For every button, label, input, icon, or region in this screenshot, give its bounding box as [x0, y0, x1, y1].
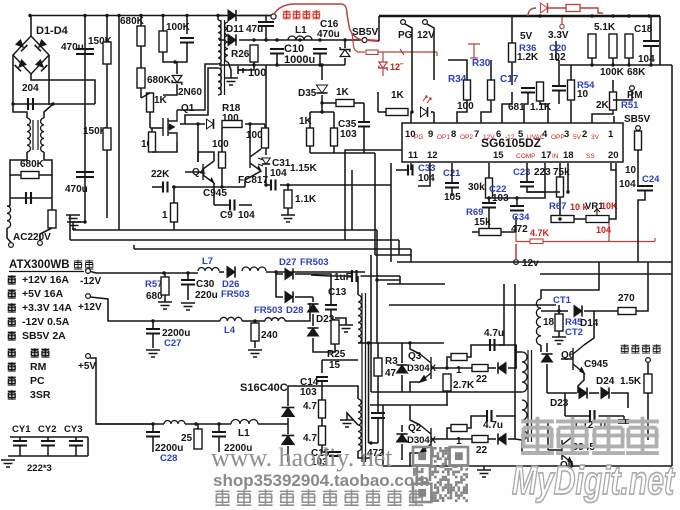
wire t3 lower bot	[522, 440, 548, 452]
wire 472 join	[369, 442, 379, 444]
wire q3 row link	[370, 255, 372, 392]
wire 47u col2	[265, 26, 267, 40]
svg-text:Q1: Q1	[181, 103, 195, 114]
wire winding bot	[410, 391, 522, 393]
core common-mode choke	[33, 120, 38, 150]
svg-text:FR503: FR503	[254, 305, 283, 316]
wire pin10 col	[410, 112, 412, 123]
svg-text:ATX300WB: ATX300WB	[9, 259, 70, 271]
wire 1.5k top	[647, 362, 649, 374]
resistor R30	[488, 80, 495, 100]
wire r26 bot	[253, 62, 255, 65]
wire c31 right	[280, 184, 288, 186]
svg-text:SS: SS	[586, 153, 595, 160]
svg-text:C27: C27	[164, 338, 181, 349]
label row black ground	[8, 348, 16, 357]
svg-text:3.3V: 3.3V	[548, 30, 569, 41]
svg-text:1.5K: 1.5K	[620, 376, 642, 387]
wire R18 right	[245, 123, 265, 125]
resistor 1 Q2	[451, 425, 467, 432]
resistor 100K snub	[159, 31, 167, 52]
resistor 1K led	[386, 109, 408, 116]
wire 75k up	[559, 163, 561, 177]
svg-text:68K: 68K	[627, 67, 646, 78]
capacitor C15	[329, 452, 341, 456]
svg-text:-12V: -12V	[80, 276, 101, 287]
svg-text:R26: R26	[231, 49, 250, 60]
diode D27	[285, 268, 293, 279]
terminal PG	[401, 20, 406, 25]
capacitor 47u	[258, 22, 274, 26]
wire mid sec rail2	[446, 399, 448, 405]
wire opto led col up	[265, 65, 267, 128]
capacitor C12	[590, 410, 595, 422]
svg-text:220u: 220u	[195, 290, 218, 301]
svg-text:100K: 100K	[600, 67, 625, 78]
capacitor C33	[408, 165, 413, 176]
wire 4.7 mid	[321, 418, 323, 426]
ground bar C12	[618, 419, 629, 424]
wire pin5 col	[524, 93, 528, 124]
svg-text:240: 240	[261, 330, 278, 341]
resistor 75k	[557, 177, 564, 197]
wire Q4 base	[185, 171, 203, 173]
diode S16C40C b	[282, 436, 295, 445]
svg-text:12˝: 12˝	[390, 62, 404, 72]
wire cy3 top	[75, 437, 77, 441]
wire bottom rail right	[484, 465, 672, 467]
svg-text:D304X: D304X	[407, 435, 437, 446]
wire c14 top	[321, 360, 323, 373]
wire 1uf right	[361, 275, 401, 277]
svg-text:104: 104	[270, 168, 287, 179]
wire left col up2	[69, 215, 71, 240]
inductor L7b	[242, 267, 266, 271]
transistor Q5	[562, 437, 572, 463]
wire Q1 gate	[150, 127, 163, 129]
node q3 rail	[408, 341, 411, 344]
svg-text:1: 1	[162, 210, 168, 221]
svg-text:Q3: Q3	[408, 351, 422, 362]
wire d35 bot	[322, 102, 336, 104]
wire c16 bot	[319, 54, 321, 66]
wire t3 sec top	[541, 262, 599, 299]
wire q3 base up	[447, 357, 451, 368]
node top rail	[627, 14, 630, 17]
wire sec top line2	[387, 283, 445, 285]
IC U1 SG6105DZ body	[402, 123, 623, 162]
node top rail	[538, 14, 541, 17]
wire c12 left col	[564, 393, 566, 416]
svg-text:1: 1	[456, 365, 462, 376]
svg-text:10: 10	[625, 165, 637, 176]
transformer T1 main core	[362, 293, 366, 462]
wire opto e	[245, 171, 261, 187]
svg-text:104: 104	[418, 173, 435, 184]
wire r25 gnd lnk	[335, 318, 346, 325]
wire 613 low	[612, 58, 614, 65]
capacitor C20	[552, 86, 566, 91]
bridge rectifier D1-D4	[13, 36, 49, 74]
svg-text:3: 3	[564, 129, 569, 140]
wire c27 top	[152, 321, 154, 329]
wire q2 d out	[508, 438, 515, 440]
capacitor CY2	[41, 441, 55, 446]
svg-text:25: 25	[181, 433, 193, 444]
svg-text:22: 22	[476, 445, 488, 456]
node c28b	[217, 422, 220, 425]
node aux rail	[252, 38, 255, 41]
node pg led	[410, 110, 413, 113]
wire sense bottom rail	[560, 64, 672, 66]
capacitor C18	[643, 41, 659, 46]
terminal aux supply	[271, 14, 276, 19]
wire r54 bot	[570, 100, 572, 123]
inductor L1 aux	[288, 36, 312, 40]
wire d23 mid	[312, 314, 314, 326]
capacitor 1uF	[352, 270, 357, 282]
wire bridge top to bus	[30, 16, 32, 38]
wire r25 bot	[313, 344, 335, 352]
resistor 1K gate	[147, 93, 154, 112]
wire d26 rail on	[266, 271, 365, 273]
wire q2 d lnk	[488, 438, 496, 440]
svg-text:D35: D35	[298, 88, 317, 99]
resistor 150K upper	[103, 42, 111, 64]
node r18 right	[248, 122, 251, 125]
node sense rail	[649, 63, 652, 66]
wire q2 gnd stub	[483, 466, 485, 470]
ground q2	[477, 470, 491, 477]
svg-text:10: 10	[577, 89, 589, 100]
resistor 2K	[610, 92, 617, 110]
capacitor X2	[26, 192, 31, 204]
wire left col up3	[133, 245, 135, 249]
wire bridge left leg	[12, 55, 14, 105]
wire r69 r	[501, 216, 516, 232]
node aux rail	[318, 38, 321, 41]
svg-text:D27: D27	[279, 257, 296, 268]
wire zener col2	[344, 58, 346, 65]
svg-text:100: 100	[457, 101, 474, 112]
wire 1k a drop	[309, 112, 311, 128]
wire q2 base	[431, 438, 447, 440]
transformer T3 secondary winding	[536, 299, 541, 345]
wire 240 gnd	[254, 341, 256, 348]
potentiometer VR1	[586, 216, 609, 223]
svg-text:1K: 1K	[391, 90, 405, 101]
transformer T1 secondary winding	[358, 399, 361, 451]
wire 100K column	[162, 16, 164, 32]
resistor R25	[331, 320, 339, 344]
None	[421, 107, 428, 117]
wire c28 dn	[152, 437, 154, 453]
svg-text:FR503: FR503	[221, 289, 250, 300]
svg-text:C18: C18	[634, 24, 653, 35]
wire schottky col	[287, 395, 289, 406]
wire 3.3V drop	[555, 41, 557, 60]
wire d35 mid	[321, 95, 323, 112]
wire left HV rail	[84, 16, 86, 223]
svg-text:100: 100	[222, 113, 239, 124]
wire mid sec rail	[370, 404, 448, 406]
node hv gnd	[83, 220, 86, 223]
node 22k-1	[172, 185, 175, 188]
resistor 1 Q3	[451, 354, 467, 361]
wire d23 col	[312, 297, 314, 302]
node r57	[162, 271, 165, 274]
svg-text:+5V 16A: +5V 16A	[22, 288, 64, 300]
label aux power red	[283, 10, 291, 19]
wire 1k d35 out	[354, 102, 364, 104]
wire bridge bottom	[31, 73, 49, 80]
wire thick top rail	[379, 15, 660, 18]
svg-text:D11: D11	[226, 24, 244, 35]
wire l7-d26	[219, 271, 224, 273]
resistor R54	[568, 80, 575, 100]
resistor 1.5K	[644, 374, 652, 393]
wire d27 in	[276, 272, 283, 274]
node aux rail	[264, 38, 267, 41]
inductor common-mode choke left winding	[27, 118, 30, 152]
wire q3 diode dn	[401, 375, 403, 392]
wire 1K link	[141, 93, 150, 98]
wire 472 top	[377, 360, 379, 413]
terminal red 3V	[560, 24, 564, 28]
wire r30 top	[490, 60, 492, 80]
wire ic left col b	[374, 153, 376, 255]
wire c13 up	[330, 297, 332, 305]
resistor R67 10k	[551, 216, 574, 223]
wire q2 rc top r	[496, 416, 515, 439]
wire q3 diode up	[401, 343, 403, 363]
wire cross3 end	[410, 249, 412, 262]
resistor 1K mid b	[331, 128, 338, 146]
wire c29 dn	[218, 437, 220, 453]
ground C30	[181, 303, 195, 310]
resistor red 4.7K	[530, 239, 543, 244]
capacitor 204 X-cap	[28, 98, 33, 110]
resistor R34	[464, 80, 471, 100]
capacitor C24	[637, 186, 653, 191]
svg-text:472: 472	[511, 224, 528, 235]
wire red comp rail	[516, 223, 655, 242]
svg-text:7: 7	[474, 129, 479, 140]
wire 1uf left	[311, 275, 352, 276]
resistor 1K mid a	[307, 128, 314, 146]
wire 25 top	[197, 424, 199, 429]
resistor 270	[618, 308, 636, 315]
wire red r30 hook	[468, 44, 480, 58]
wire led left col	[377, 92, 379, 112]
label output row -12V 0.5A	[8, 317, 16, 326]
svg-text:2K: 2K	[596, 100, 610, 111]
wire 1k b drop	[333, 112, 335, 128]
wire ic left col d	[351, 170, 353, 230]
wire 2.7k bot	[446, 391, 448, 399]
wire schottky mid	[287, 418, 289, 434]
svg-text:20: 20	[608, 150, 619, 161]
resistor R3	[374, 358, 382, 376]
node aux rail	[343, 38, 346, 41]
svg-text:R57: R57	[145, 279, 162, 290]
wire d14 out	[584, 310, 618, 312]
wire c23 up	[526, 163, 528, 182]
underline title	[9, 271, 84, 273]
wire q2 e dn	[410, 453, 420, 466]
wire base col	[197, 124, 199, 162]
wire pin12 down	[418, 163, 430, 186]
resistor R18 100	[222, 121, 242, 128]
resistor R36	[509, 43, 516, 62]
wire t1 tap up	[376, 280, 378, 343]
wire c29 top	[218, 424, 220, 432]
wire ct1 col	[558, 305, 560, 314]
terminal AC L	[9, 243, 14, 248]
diode Q6 clamp	[541, 354, 552, 362]
svg-text:C28: C28	[160, 453, 177, 464]
wire 5v rail mid	[185, 423, 231, 425]
wire rm down	[613, 90, 632, 100]
capacitor C35	[358, 122, 370, 127]
wire c22 dn	[488, 198, 490, 203]
svg-text:103: 103	[340, 129, 357, 140]
wire 680K to cap2 right	[51, 175, 53, 210]
wire c28 top	[152, 424, 154, 432]
wire cy3 bot	[75, 446, 77, 457]
capacitor snubber	[180, 38, 194, 43]
resistor 10 source	[149, 132, 156, 152]
ground T2 fb	[224, 78, 238, 85]
svg-text:222*3: 222*3	[27, 463, 52, 474]
svg-text:18: 18	[563, 150, 574, 161]
resistor 100 base	[219, 152, 226, 168]
wire r34 pin8	[457, 100, 467, 123]
wire r69 l	[472, 231, 479, 233]
resistor 22 Q2	[472, 436, 488, 443]
svg-text:D14: D14	[580, 318, 599, 329]
wire 1.1k top	[287, 185, 289, 190]
wire 100 base up	[221, 128, 223, 152]
None	[250, 149, 261, 171]
wire d35 col	[321, 65, 323, 80]
diode D23b	[307, 328, 318, 336]
capacitor C14	[316, 377, 328, 381]
wire c15 lnk	[322, 445, 335, 452]
wire choke bottom-left	[10, 152, 27, 175]
capacitor C23	[520, 182, 534, 187]
wire 1k a bot	[309, 146, 311, 153]
wire choke top-left	[13, 104, 27, 118]
wire q6 c	[584, 311, 594, 345]
node t1 tap	[367, 341, 370, 344]
label output row SB5V 2A	[8, 331, 16, 340]
wire red 3V drop	[561, 17, 563, 24]
inductor L5	[164, 421, 185, 425]
wire 5v rail l	[96, 423, 153, 425]
svg-text:OPP: OPP	[551, 134, 565, 141]
svg-text:1: 1	[456, 436, 462, 447]
svg-text:104: 104	[638, 54, 655, 65]
capacitor 4.7u Q2	[487, 410, 492, 422]
svg-text:IN: IN	[552, 153, 559, 160]
wire r36 d	[511, 62, 513, 85]
transformer T2 secondary winding	[225, 22, 228, 62]
svg-text:1uF: 1uF	[334, 272, 352, 283]
wire 472 bot	[377, 418, 379, 444]
svg-text:470u: 470u	[317, 29, 340, 40]
svg-text:SB5V: SB5V	[624, 114, 650, 125]
wire mid cross 1	[73, 229, 377, 231]
wire 5v to diodes	[258, 423, 288, 425]
wire q2 bot rail	[383, 465, 484, 467]
wire red SB5V link	[367, 40, 379, 41]
svg-text:CT1: CT1	[553, 295, 572, 306]
wire pin17 dn	[517, 163, 545, 198]
wire t1 sec bot	[358, 451, 371, 458]
wire top sec rail	[540, 273, 672, 275]
wire vert 515	[514, 284, 516, 416]
wire 1k pair top	[310, 111, 334, 113]
wire mid cross 2	[70, 239, 399, 241]
wire pin4 col	[540, 101, 548, 123]
node bus bridge	[28, 14, 31, 17]
diode zener 12 red	[379, 62, 387, 71]
wire T2 top feed	[217, 16, 219, 21]
wire q2 left col	[382, 405, 384, 466]
terminal +5V	[86, 354, 91, 359]
resistor 22 Q3	[472, 365, 488, 372]
wire +5V lead	[90, 358, 164, 424]
wire right frame2	[671, 65, 673, 466]
wire t3 sec bot	[540, 345, 542, 352]
wire sec top line3	[389, 304, 556, 306]
wire q3 e dn	[410, 382, 420, 392]
wire 119 column	[118, 16, 120, 231]
node c31 right	[286, 183, 289, 186]
transistor Q3	[420, 354, 431, 382]
diode D23 aux	[579, 387, 587, 398]
resistor 1K d35	[336, 100, 354, 107]
wire d27b in	[276, 274, 283, 297]
svg-text:RM: RM	[30, 361, 47, 373]
None	[371, 413, 385, 418]
node ss	[566, 190, 569, 193]
svg-text:S16C40C: S16C40C	[240, 382, 288, 394]
wire r3 up	[377, 343, 379, 358]
led PC817 arrows	[258, 158, 263, 166]
capacitor 470u lower	[76, 172, 94, 177]
capacitor C13	[325, 305, 337, 310]
node 25	[194, 422, 197, 425]
diode D27b	[285, 291, 293, 302]
wire +12V lead	[90, 297, 220, 321]
node	[275, 63, 278, 66]
svg-text:100: 100	[248, 67, 266, 79]
inductor L7	[198, 268, 219, 272]
ground C27	[146, 350, 160, 357]
terminal 12v mid	[514, 260, 519, 265]
svg-text:18: 18	[543, 317, 555, 328]
svg-text:22K: 22K	[151, 169, 170, 180]
capacitor C29	[212, 432, 226, 437]
wire 1.1k gnd	[287, 208, 289, 215]
terminal +12V	[86, 294, 91, 299]
wire aux bottom rail	[219, 64, 345, 66]
capacitor C34	[510, 206, 524, 211]
label row grey PC	[8, 376, 16, 385]
svg-text:www. haodiy. net: www. haodiy. net	[211, 443, 393, 472]
